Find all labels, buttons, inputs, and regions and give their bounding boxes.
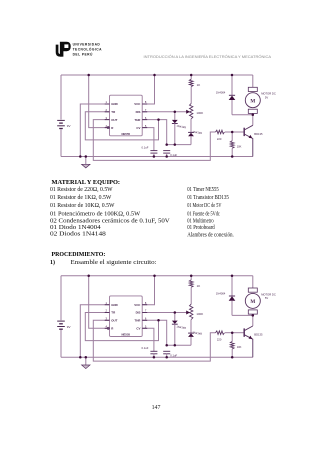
resistor 1K — [190, 75, 192, 79]
svg-text:CV: CV — [136, 327, 140, 331]
wire: +V top rail — [61, 74, 253, 76]
junction: R pin to +V rail — [87, 74, 90, 77]
wire: motor bottom to flyback diode — [232, 314, 253, 316]
svg-text:10K: 10K — [237, 144, 242, 148]
svg-text:NE555: NE555 — [122, 132, 131, 136]
svg-text:02 Condensadores cerámicos de: 02 Condensadores cerámicos de 0.1uF, 50V — [50, 217, 170, 224]
svg-text:1): 1) — [50, 259, 55, 266]
svg-text:TECNOLÓGICA: TECNOLÓGICA — [73, 47, 102, 52]
wire: +V top rail — [61, 275, 253, 277]
svg-text:TR: TR — [111, 311, 116, 315]
junction: THR/cap node — [165, 143, 168, 146]
transistor Q2 BD135 NPN — [232, 332, 244, 334]
svg-text:5V: 5V — [265, 296, 268, 300]
svg-text:5V: 5V — [265, 95, 268, 99]
capacitor C2a 0.1uF — [150, 350, 157, 352]
svg-text:M: M — [250, 299, 255, 305]
wire: pin8 VCC to +V rail — [142, 75, 154, 104]
wire: diode cathode/anode bottom node — [167, 344, 191, 346]
junction: diode cathode node — [174, 143, 177, 146]
svg-text:10K: 10K — [237, 345, 242, 349]
svg-text:100K: 100K — [196, 312, 203, 316]
svg-text:THR: THR — [134, 118, 141, 122]
motor M2 DC 5V — [252, 276, 254, 288]
svg-text:NE555: NE555 — [122, 333, 131, 337]
wire: battery top lead — [60, 75, 62, 120]
wire: pin6 THR down to diode node — [142, 120, 167, 145]
svg-text:01 Timer NE555: 01 Timer NE555 — [187, 187, 219, 193]
svg-text:DIS: DIS — [136, 311, 141, 315]
svg-text:9V: 9V — [67, 325, 71, 329]
junction: motor/collector/flyback node — [252, 314, 255, 317]
wire: pin7 DIS to potentiometer wiper — [142, 111, 186, 113]
svg-text:1K: 1K — [197, 83, 201, 87]
svg-text:1N4148: 1N4148 — [192, 330, 203, 336]
op IC U2 NE555 timer body — [110, 296, 143, 337]
resistor 220 — [216, 331, 225, 335]
svg-text:TR: TR — [111, 110, 116, 114]
svg-text:01 Diodo 1N4004: 01 Diodo 1N4004 — [50, 224, 101, 231]
wire: battery bottom lead — [60, 330, 62, 357]
junction: VCC to +V rail — [153, 74, 156, 77]
wire: ground bottom rail — [61, 156, 253, 158]
wire: pin8 VCC to +V rail — [142, 276, 154, 305]
junction: DIS/diode anode node — [174, 311, 177, 314]
wire: pin2 TR loop to THR node — [85, 313, 158, 341]
svg-text:9V: 9V — [67, 124, 71, 128]
svg-text:01 Resistor de 1KΩ, 0.5W: 01 Resistor de 1KΩ, 0.5W — [50, 195, 112, 201]
motor M1 DC 5V — [252, 75, 254, 87]
junction: GND pin to rail — [79, 155, 82, 158]
svg-text:THR: THR — [134, 319, 141, 323]
svg-text:0.1uF: 0.1uF — [142, 145, 149, 149]
resistor 10K — [231, 132, 233, 141]
svg-text:INTRODUCCIÓN A LA INGENIERÍA E: INTRODUCCIÓN A LA INGENIERÍA ELECTRÓNICA… — [144, 54, 272, 59]
svg-text:PROCEDIMIENTO:: PROCEDIMIENTO: — [52, 251, 106, 258]
svg-text:1N4148: 1N4148 — [176, 124, 187, 130]
svg-text:01 Transistor BD135: 01 Transistor BD135 — [187, 195, 229, 201]
resistor 220 — [216, 130, 225, 134]
junction: TR/THR node — [157, 118, 160, 121]
svg-text:147: 147 — [152, 405, 161, 411]
ground symbol — [85, 157, 87, 165]
op IC U1 NE555 timer body — [110, 95, 143, 136]
diode D1c 1N4004 flyback — [231, 75, 233, 95]
capacitor C1a 0.1uF — [150, 150, 157, 152]
capacitor C2b 0.1uF — [163, 350, 170, 352]
svg-text:0.1uF: 0.1uF — [170, 153, 177, 157]
diode D2a 1N4148 (anode up) — [174, 313, 176, 321]
battery B2 9V — [57, 320, 65, 322]
svg-text:100K: 100K — [196, 111, 203, 115]
junction: cap C b to rail — [165, 155, 168, 158]
svg-text:R: R — [111, 126, 114, 130]
svg-text:CV: CV — [136, 126, 140, 130]
wire: battery top lead — [60, 276, 62, 321]
junction: diode cathode node — [174, 344, 177, 347]
junction: cap C b to rail — [165, 356, 168, 359]
junction: VCC to +V rail — [153, 274, 156, 277]
junction: 1K to +V rail — [190, 74, 193, 77]
junction: cap C a to rail — [153, 356, 156, 359]
potentiometer 100K — [190, 304, 193, 319]
svg-text:GND: GND — [111, 102, 117, 106]
junction: 1K to +V rail — [190, 274, 193, 277]
diode D2b 1N4148 (cathode up) — [190, 320, 192, 334]
junction: R pin to +V rail — [87, 274, 90, 277]
svg-text:1K: 1K — [197, 284, 201, 288]
svg-text:1N4004: 1N4004 — [216, 291, 226, 295]
svg-text:220: 220 — [217, 137, 222, 141]
circuit 2: NE555 PWM motor control schematic (duplicate) — [57, 274, 276, 368]
wire: pin4 R to +V rail — [89, 276, 110, 329]
junction: 10K to rail — [231, 155, 234, 158]
wire: pin2 TR loop to THR node — [85, 112, 158, 140]
svg-text:OUT: OUT — [111, 118, 117, 122]
svg-text:01 Multimetro: 01 Multimetro — [187, 218, 214, 224]
capacitor C1b 0.1uF — [163, 150, 170, 152]
wire: battery bottom lead — [60, 129, 62, 156]
svg-text:VCC: VCC — [134, 303, 141, 307]
wire: pin7 DIS to potentiometer wiper — [142, 312, 186, 314]
circuit 1: NE555 PWM motor control schematic — [57, 74, 276, 168]
wire: pin1 GND to ground rail — [80, 104, 109, 157]
svg-text:01 Protoboard: 01 Protoboard — [187, 225, 215, 231]
diode D1a 1N4148 (anode up) — [174, 112, 176, 120]
resistor 10K — [231, 333, 233, 342]
junction: cap C a to rail — [153, 155, 156, 158]
wire: pin5 CV to capacitor C1 — [142, 128, 154, 151]
svg-text:MOTOR DC: MOTOR DC — [261, 292, 276, 296]
resistor 1K — [190, 276, 192, 280]
svg-text:GND: GND — [111, 303, 117, 307]
junction: TR/THR node — [157, 319, 160, 322]
ground symbol — [85, 357, 87, 365]
junction: base node 220/10K — [231, 131, 234, 134]
diode D2c 1N4004 flyback — [231, 276, 233, 296]
wire: pin4 R to +V rail — [89, 75, 110, 128]
junction: 1N4004 to +V rail — [231, 274, 234, 277]
svg-text:MATERIAL Y EQUIPO:: MATERIAL Y EQUIPO: — [52, 179, 121, 186]
svg-text:01 Motor DC de 5V: 01 Motor DC de 5V — [187, 203, 222, 209]
svg-text:R: R — [111, 327, 114, 331]
transistor Q1 BD135 NPN — [232, 131, 244, 133]
svg-text:MOTOR DC: MOTOR DC — [261, 92, 276, 96]
svg-text:0.1uF: 0.1uF — [170, 354, 177, 358]
diode D1b 1N4148 (cathode up) — [190, 119, 192, 133]
junction: DIS/diode anode node — [174, 111, 177, 114]
svg-text:Alambres de conexión.: Alambres de conexión. — [187, 232, 234, 238]
svg-text:01 Fuente de 5Vdc: 01 Fuente de 5Vdc — [187, 211, 220, 217]
svg-text:BD135: BD135 — [254, 132, 263, 136]
svg-text:1N4148: 1N4148 — [192, 130, 203, 136]
svg-text:OUT: OUT — [111, 319, 117, 323]
junction: 10K to rail — [231, 356, 234, 359]
svg-text:1N4004: 1N4004 — [216, 91, 226, 95]
wire: diode cathode/anode bottom node — [167, 144, 191, 146]
svg-text:0.1uF: 0.1uF — [142, 346, 149, 350]
svg-text:01 Potenciómetro de 100KΩ, 0.5: 01 Potenciómetro de 100KΩ, 0.5W — [50, 210, 140, 217]
junction: 1N4004 to +V rail — [231, 74, 234, 77]
wire: pin3 OUT to 220 resistor — [93, 120, 215, 161]
svg-text:Ensamble el siguiente circuito: Ensamble el siguiente circuito: — [71, 260, 157, 266]
svg-text:01 Resistor de 10KΩ, 0.5W: 01 Resistor de 10KΩ, 0.5W — [50, 203, 115, 209]
junction: ground symbol to rail — [85, 155, 88, 158]
svg-text:DIS: DIS — [136, 110, 141, 114]
svg-text:1N4148: 1N4148 — [176, 325, 187, 331]
svg-text:02 Diodos 1N4148: 02 Diodos 1N4148 — [50, 231, 106, 238]
junction: THR/cap node — [165, 344, 168, 347]
junction: base node 220/10K — [231, 331, 234, 334]
UTP logo monogram — [56, 42, 71, 57]
wire: pin5 CV to capacitor C1 — [142, 328, 154, 351]
junction: GND pin to rail — [79, 356, 82, 359]
svg-text:DEL PERÚ: DEL PERÚ — [73, 52, 93, 57]
junction: ground symbol to rail — [85, 356, 88, 359]
wire: pin1 GND to ground rail — [80, 305, 109, 358]
svg-text:01 Resistor de 220Ω, 0.5W: 01 Resistor de 220Ω, 0.5W — [50, 187, 113, 193]
junction: motor/collector/flyback node — [252, 113, 255, 116]
svg-text:M: M — [250, 98, 255, 104]
svg-text:VCC: VCC — [134, 102, 141, 106]
wire: motor bottom to flyback diode — [232, 114, 253, 116]
wire: pin3 OUT to 220 resistor — [93, 320, 215, 361]
potentiometer 100K — [190, 103, 193, 118]
svg-text:BD135: BD135 — [254, 333, 263, 337]
svg-text:220: 220 — [217, 338, 222, 342]
battery B1 9V — [57, 119, 65, 121]
wire: ground bottom rail — [61, 356, 253, 358]
wire: pin6 THR down to diode node — [142, 320, 167, 345]
svg-text:UNIVERSIDAD: UNIVERSIDAD — [73, 42, 101, 46]
